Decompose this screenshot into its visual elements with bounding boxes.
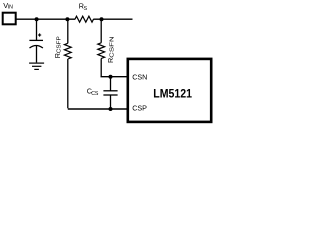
svg-text:CSFN: CSFN [110,36,116,58]
svg-text:CS: CS [91,91,99,97]
svg-text:CSN: CSN [132,73,147,82]
svg-text:LM5121: LM5121 [153,89,192,101]
svg-text:CSP: CSP [132,103,147,112]
svg-text:CSFP: CSFP [57,36,63,53]
svg-text:IN: IN [8,4,13,10]
svg-text:S: S [84,6,88,12]
